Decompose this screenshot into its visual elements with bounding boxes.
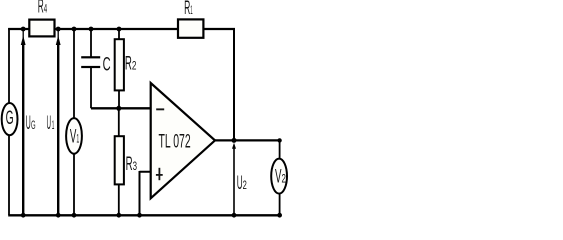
svg-text:1: 1 [52, 120, 55, 132]
svg-text:1: 1 [76, 134, 79, 146]
svg-text:4: 4 [44, 3, 48, 15]
svg-text:2: 2 [282, 174, 286, 186]
svg-text:2: 2 [132, 61, 137, 73]
svg-text:TL 072: TL 072 [159, 131, 191, 152]
svg-text:G: G [31, 120, 36, 132]
svg-text:1: 1 [190, 5, 192, 17]
svg-text:2: 2 [243, 180, 247, 192]
svg-text:U: U [47, 113, 52, 134]
svg-text:G: G [6, 108, 14, 129]
svg-text:R: R [126, 154, 133, 175]
svg-text:C: C [103, 55, 111, 76]
svg-text:R: R [125, 54, 132, 75]
svg-text:3: 3 [133, 161, 137, 173]
